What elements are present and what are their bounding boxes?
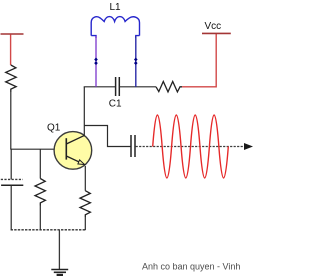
capacitor output coupling (right plate) [134, 135, 136, 157]
inductor L1 right step [136, 36, 140, 38]
transistor Q1 collector diagonal [66, 135, 84, 144]
wire capacitor-left top lead [10, 149, 12, 179]
wire capacitor-left bottom lead [10, 186, 12, 230]
capacitor C1 (left plate) [115, 77, 117, 96]
wire red to Vcc [182, 34, 216, 87]
svg-text:Vcc: Vcc [205, 21, 222, 32]
capacitor C1 (right plate) [118, 77, 120, 96]
svg-text:Anh co ban quyen - Vinh: Anh co ban quyen - Vinh [142, 262, 240, 272]
capacitor output coupling (left plate) [130, 135, 132, 157]
wire bottom rail (dashed) [11, 229, 86, 231]
svg-text:Q1: Q1 [47, 122, 61, 133]
svg-text:C1: C1 [109, 99, 122, 110]
wire L1 left lead (purple) [95, 36, 97, 87]
resistor R-emitter [80, 191, 90, 217]
wire base-left vertical [10, 92, 12, 149]
wire ground stem [58, 230, 60, 269]
wire signal axis (dashed) with arrow [136, 143, 253, 150]
ground [51, 270, 68, 275]
resistor R-bias-lower [35, 179, 45, 206]
power bar (left supply rail) [1, 34, 24, 65]
wire R-bias-lower top lead [39, 149, 41, 178]
inductor L1 coil [91, 17, 139, 36]
sine wave output signal [153, 115, 229, 178]
wire C1 to resistor [119, 86, 156, 88]
wire output branch [84, 126, 131, 147]
capacitor left (top plate, dashed) [1, 178, 23, 180]
wire R-emitter bottom lead [84, 217, 86, 230]
transistor Q1 emitter diagonal with arrow [66, 156, 85, 165]
inductor L1 left step [91, 36, 96, 38]
wire L1 right lead (blue) [135, 36, 137, 87]
svg-text:L1: L1 [110, 2, 122, 13]
node pin dots right [134, 58, 138, 66]
wire emitter vertical [84, 166, 86, 191]
transistor Q1 body [54, 132, 92, 170]
resistor R-bias-upper [6, 65, 17, 92]
resistor R-collector (horizontal) [156, 82, 182, 92]
transistor Q1 base bar [65, 138, 67, 159]
wire collector vertical [83, 87, 85, 136]
Vcc bar [202, 32, 231, 34]
wire tank top rail [84, 86, 116, 88]
wire R-bias-lower bottom lead [39, 206, 41, 230]
capacitor left (bottom plate) [1, 184, 23, 186]
wire base horizontal [10, 148, 54, 150]
node pin dots left [94, 58, 98, 66]
